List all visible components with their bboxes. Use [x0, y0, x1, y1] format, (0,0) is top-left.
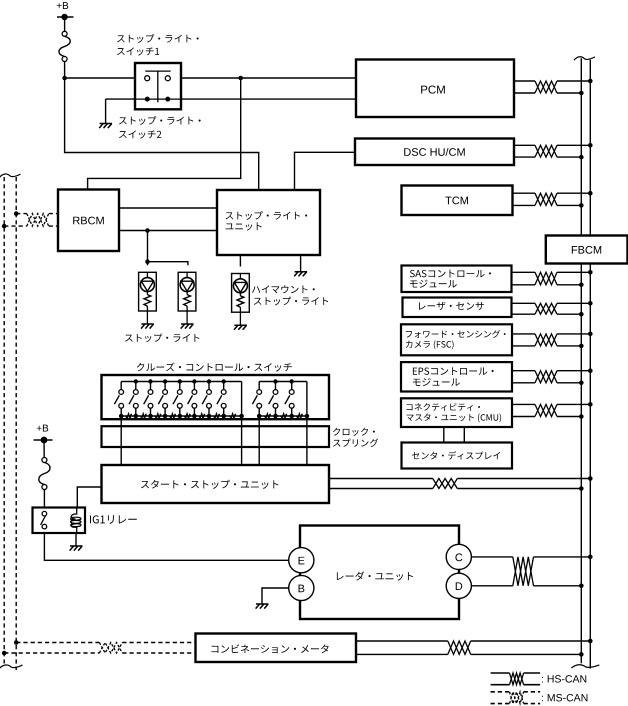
- node junction upper wire x=240.7: [238, 76, 243, 81]
- wire RBCM to stop-light-unit (lower): [119, 230, 217, 232]
- resistor (cruise ladder): [140, 414, 146, 418]
- resistor (cruise ladder): [155, 414, 161, 418]
- twisted pair DSC to bus: [514, 143, 593, 159]
- node junction on lower wire: [145, 228, 150, 233]
- TCM box: [402, 186, 513, 216]
- legend MS-CAN text: [542, 694, 587, 701]
- stop light lamp 1: [139, 272, 157, 324]
- twisted pair SAS to bus: [512, 270, 593, 287]
- resistor (cruise ladder): [184, 414, 190, 418]
- IG1 relay box: [33, 508, 86, 534]
- wire stop light unit to ground: [300, 255, 302, 272]
- wire relay coil to ground: [75, 533, 77, 546]
- forward sensing camera box: [401, 324, 512, 355]
- start-stop unit box: [102, 465, 330, 503]
- label EPS line2: [413, 378, 460, 386]
- top bus node SW3: [148, 379, 152, 383]
- label high mount line1: [252, 285, 315, 293]
- label FSC line1: [406, 330, 506, 338]
- twisted pair FSC to bus: [512, 332, 593, 349]
- label IG1 relay: [90, 515, 137, 524]
- label cruise control switch: [137, 362, 292, 371]
- top bus node SW8: [222, 379, 226, 383]
- wire start-stop unit to IG1 relay coil: [77, 487, 101, 508]
- twisted pair combination meter to bus: [356, 639, 593, 657]
- ground (stop light unit): [294, 272, 307, 277]
- stop light switch box: [135, 63, 181, 109]
- HS-CAN bus line (near): [580, 58, 582, 663]
- MS-CAN bus break top: [0, 174, 21, 177]
- cruise switch SW2: [129, 382, 138, 419]
- EPS control module box: [401, 362, 512, 391]
- wire RBCM to stop-light-unit (upper): [119, 207, 217, 209]
- radar unit box: [300, 526, 459, 620]
- wire cruise sw to start-stop unit 2: [241, 382, 243, 466]
- cruise switch right group bottom bus: [259, 415, 307, 417]
- resistor (cruise ladder): [214, 414, 220, 418]
- cruise switch right group top bus: [259, 381, 307, 383]
- cruise switch SW3: [144, 382, 153, 419]
- ground (radar unit B): [256, 604, 269, 609]
- cruise switch left group top bus: [121, 381, 241, 383]
- twisted pair laser sensor to bus: [512, 301, 593, 317]
- cruise switch SW10 (right group): [269, 382, 278, 419]
- label CMU line1: [407, 403, 480, 411]
- wires CMU to center display: [443, 427, 445, 443]
- fuse F2 (lower +B): [39, 458, 50, 490]
- cruise switch SW6: [188, 382, 197, 419]
- label high mount line2: [254, 297, 328, 306]
- RBCM label: [73, 217, 104, 225]
- cruise switch SW1: [114, 382, 123, 419]
- top bus node SW6: [192, 379, 196, 383]
- cruise switch SW7: [202, 382, 211, 419]
- cruise switch SW5: [173, 382, 182, 419]
- wire +B junction to stop-light-switch 1 contact: [65, 77, 145, 79]
- PCM label: [421, 85, 445, 93]
- ground under high-mount stop light lamp: [234, 325, 247, 330]
- wire DSC HU/CM to stop light unit: [295, 152, 356, 190]
- power +B terminal (lower): [34, 437, 53, 444]
- label start stop unit: [141, 480, 278, 489]
- power +B label (top): [57, 2, 68, 9]
- FBCM label: [572, 246, 601, 254]
- top bus node SW4: [163, 379, 167, 383]
- RBCM module box: [58, 190, 119, 252]
- cruise switch SW8: [217, 382, 226, 419]
- twisted pair start-stop unit to bus: [329, 476, 593, 491]
- HS-CAN bus line (far): [589, 60, 591, 669]
- label clock spring line1: [333, 428, 375, 436]
- radar terminal E: [289, 548, 314, 573]
- wire stop light unit to high-mount lamp: [239, 255, 241, 267]
- wire cruise sw to start-stop unit 1: [120, 418, 122, 465]
- fuse F1 (top +B): [59, 31, 70, 61]
- label laser sensor: [419, 302, 484, 310]
- label SAS module line2: [410, 280, 457, 288]
- cruise switch left group bottom bus: [121, 415, 241, 417]
- label CMU line2: [406, 413, 501, 422]
- top bus node SW2: [134, 379, 138, 383]
- resistor (cruise ladder): [199, 414, 205, 418]
- SAS control module box: [402, 266, 512, 293]
- label radar unit: [337, 571, 413, 580]
- dashed twisted pair bus to combination meter: [2, 640, 196, 655]
- center display box: [402, 443, 513, 469]
- bottom bus end node (right): [305, 414, 310, 419]
- clock spring box: [102, 426, 330, 447]
- label SAS module line1: [410, 270, 491, 278]
- resistor (cruise ladder): [230, 414, 236, 418]
- resistor (cruise ladder right): [265, 414, 271, 418]
- cruise switch SW11 (right group): [285, 382, 294, 419]
- ground (IG1 relay): [70, 546, 83, 551]
- wire relay switch to radar unit E: [44, 533, 288, 560]
- wire branch to stop light lamp 2: [148, 262, 188, 266]
- wire junction branch down-left to RBCM: [88, 78, 241, 190]
- twisted pair CMU to bus: [512, 402, 593, 419]
- wire cruise sw to start-stop unit 3: [258, 418, 260, 465]
- MS-CAN bus break bottom: [0, 665, 23, 668]
- DSC HU/CM label: [404, 148, 465, 156]
- label stop light unit line2: [225, 222, 261, 230]
- FBCM box: [546, 236, 628, 264]
- label clock spring line2: [333, 439, 378, 447]
- twisted pair TCM to bus: [513, 191, 593, 208]
- top bus node SW5: [178, 379, 182, 383]
- top bus node SW7: [207, 379, 211, 383]
- twisted pair PCM to bus: [514, 79, 593, 96]
- wire to ground (switch 2): [105, 99, 107, 123]
- twisted pair radar C/D to bus: [471, 555, 592, 588]
- cruise switch SW4: [158, 382, 167, 419]
- cruise switch SW9 (right group): [252, 382, 261, 419]
- legend HS-CAN symbol: [491, 673, 540, 685]
- wire fuse to junction: [64, 61, 66, 78]
- TCM label: [445, 197, 468, 205]
- dashed twisted pair bus to RBCM: [2, 211, 58, 228]
- ground under stop light lamp 2: [181, 324, 194, 329]
- wire switch1 to PCM (upper): [170, 77, 356, 79]
- label stop light switch 2 line1: [119, 116, 201, 125]
- node junction at +B wire: [62, 76, 67, 81]
- ground (stop light switch 2): [99, 124, 112, 129]
- bus break mark bottom: [571, 665, 599, 668]
- legend HS-CAN text: [542, 675, 586, 682]
- label stop light switch 1 line1: [117, 34, 199, 43]
- PCM box: [356, 60, 514, 118]
- wire fuse to relay: [43, 489, 45, 507]
- wire +B terminal to fuse: [64, 17, 66, 32]
- bottom bus end node: [239, 414, 244, 419]
- wire switch2 row: ground stub to PCM (lower): [106, 98, 356, 100]
- wire junction down to stop light lamp 1: [147, 231, 149, 266]
- bus break mark top: [574, 57, 595, 60]
- radar terminal B: [289, 575, 314, 600]
- label FSC line2: [406, 340, 454, 349]
- resistor (cruise ladder): [126, 414, 132, 418]
- wire radar B to ground: [262, 588, 289, 604]
- stop light lamp 2: [178, 272, 196, 324]
- connectivity master unit box: [401, 398, 512, 427]
- radar terminal D: [446, 573, 471, 598]
- label stop light switch 1 line2: [117, 47, 159, 55]
- label combination meter: [212, 644, 329, 653]
- combination meter box: [196, 634, 357, 663]
- node junction to lamp 2 branch: [145, 259, 150, 264]
- ground under stop light lamp 1: [141, 324, 154, 329]
- wire +B to fuse (lower): [43, 440, 45, 458]
- resistor (cruise ladder): [170, 414, 176, 418]
- MS-CAN bus line (left): [3, 177, 5, 664]
- legend MS-CAN symbol: [491, 692, 540, 704]
- label EPS line1: [413, 367, 494, 375]
- resistor (cruise ladder right): [297, 414, 303, 418]
- wire cruise sw to start-stop unit 4: [306, 382, 308, 466]
- resistor (cruise ladder right): [281, 414, 287, 418]
- label stop light unit line1: [226, 211, 308, 220]
- cruise control switch box: [102, 375, 330, 419]
- twisted pair EPS to bus: [512, 368, 593, 385]
- stop light unit box: [217, 190, 320, 255]
- label stop light switch 2 line2: [119, 130, 161, 138]
- power +B label (lower): [37, 425, 48, 432]
- power +B terminal (top): [57, 14, 74, 20]
- top bus node: [273, 379, 277, 383]
- radar terminal C: [446, 544, 471, 569]
- DSC HU/CM box: [355, 139, 514, 166]
- label center display: [412, 451, 500, 459]
- label stop light lamps: [125, 333, 199, 342]
- wire +B branch down-right to stop light unit: [65, 78, 259, 190]
- high-mount stop light lamp: [232, 274, 250, 326]
- MS-CAN bus line (right): [15, 177, 17, 670]
- top bus node: [290, 379, 294, 383]
- laser sensor box: [403, 298, 512, 318]
